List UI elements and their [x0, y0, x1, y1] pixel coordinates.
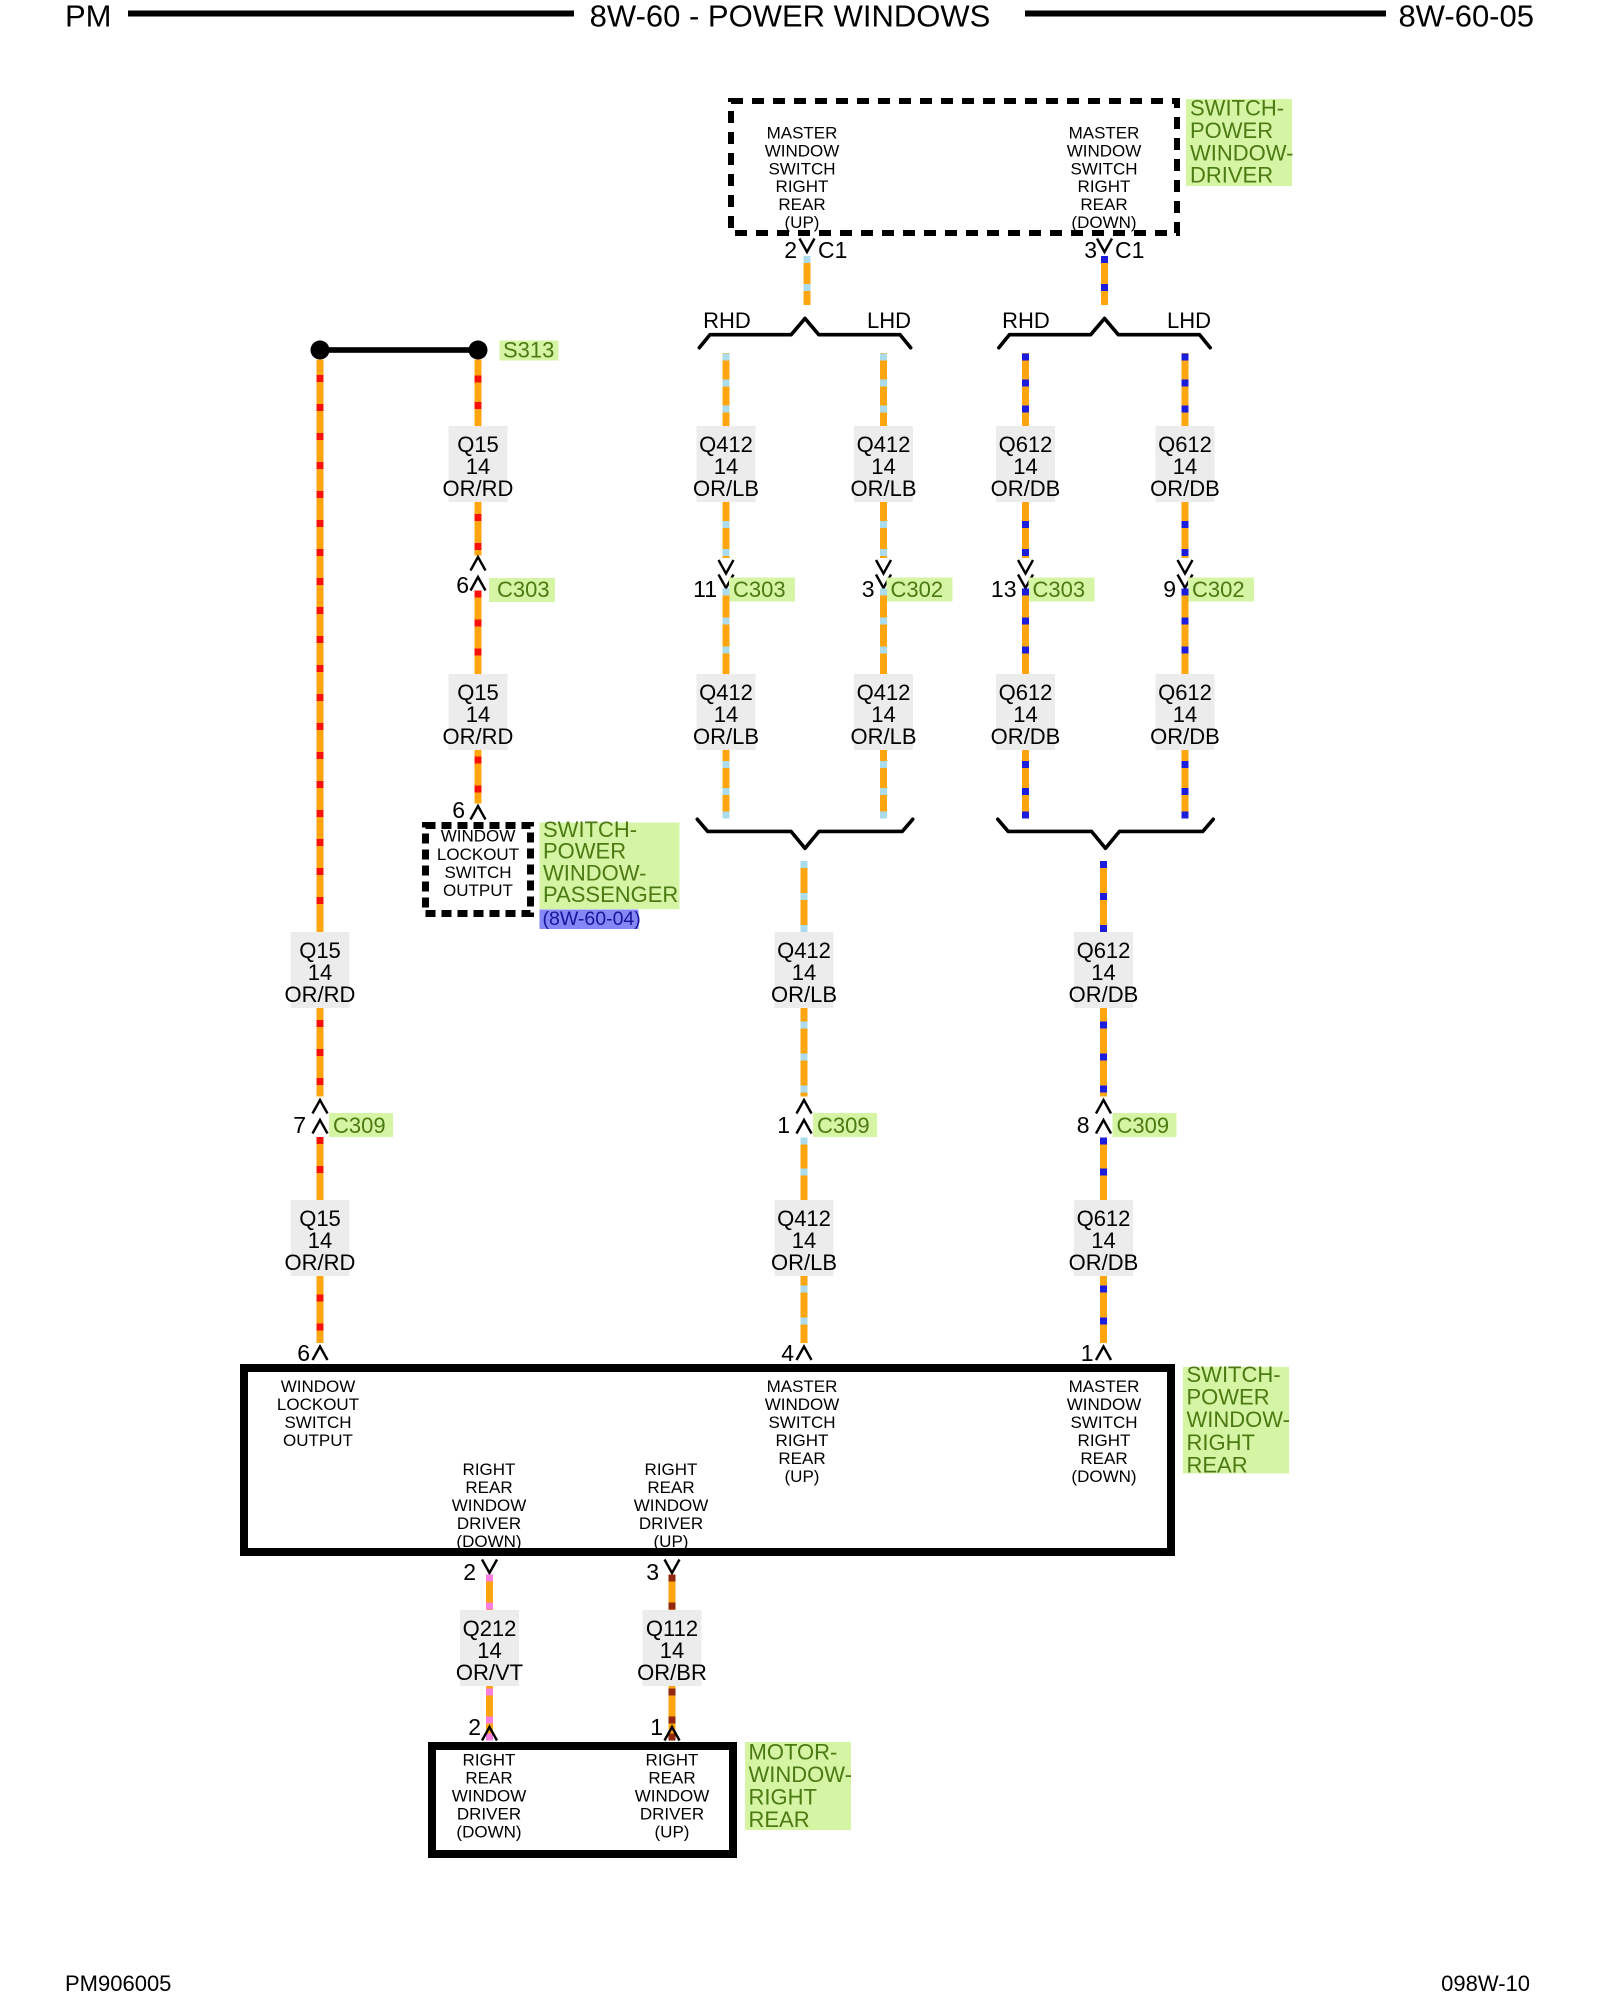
- label Q612 14 OR/DB (branch upper): [1150, 426, 1220, 502]
- label C309: [813, 1113, 877, 1138]
- label Q212 14 OR/VT: [456, 1610, 523, 1686]
- svg-text:OR/DB: OR/DB: [1150, 724, 1220, 749]
- label Q612 14 OR/DB (merged upper): [1069, 932, 1139, 1008]
- wire Q412 OR/LB merged segment 3: [801, 1138, 808, 1201]
- svg-text:REAR: REAR: [749, 1807, 810, 1832]
- svg-text:OR/DB: OR/DB: [1150, 476, 1220, 501]
- label Q15 14 OR/RD (left, upper): [285, 932, 356, 1008]
- svg-text:OR/RD: OR/RD: [443, 724, 514, 749]
- svg-text:WINDOW: WINDOW: [441, 827, 516, 846]
- svg-text:WINDOW-: WINDOW-: [1190, 140, 1293, 165]
- label C303: [1029, 577, 1095, 602]
- wire Q15 OR/RD right segment 1: [475, 360, 482, 427]
- wire Q112 OR/BR segment 1: [669, 1575, 676, 1611]
- svg-text:1: 1: [1081, 1340, 1094, 1366]
- svg-text:C1: C1: [818, 237, 847, 263]
- svg-text:PM906005: PM906005: [65, 1971, 171, 1996]
- RHD/LHD split bracket (Q412): [699, 318, 910, 347]
- svg-text:3: 3: [646, 1559, 659, 1585]
- label switch-power window-driver: [1186, 96, 1293, 188]
- wire Q412 OR/LB branch x=726 segment 2: [723, 502, 730, 558]
- label Q412 14 OR/LB (branch lower): [850, 674, 916, 750]
- svg-text:PM: PM: [65, 0, 112, 34]
- svg-text:DRIVER: DRIVER: [639, 1514, 703, 1533]
- svg-text:S313: S313: [503, 338, 554, 363]
- svg-text:REAR: REAR: [1187, 1452, 1248, 1477]
- label Q412 14 OR/LB (merged lower): [771, 1200, 837, 1276]
- svg-text:C302: C302: [1192, 577, 1245, 602]
- svg-text:REAR: REAR: [465, 1478, 512, 1497]
- merge bracket (Q412): [697, 819, 912, 848]
- label Q412 14 OR/LB (branch upper): [693, 426, 759, 502]
- svg-text:SWITCH: SWITCH: [444, 863, 511, 882]
- svg-text:(DOWN): (DOWN): [456, 1823, 521, 1842]
- svg-text:OR/RD: OR/RD: [443, 476, 514, 501]
- label Q612 14 OR/DB (merged lower): [1069, 1200, 1139, 1276]
- connector C302 pin 3 chevrons: [876, 560, 891, 588]
- pin 2 into motor: [468, 1714, 497, 1741]
- svg-text:(UP): (UP): [785, 213, 820, 232]
- svg-text:3: 3: [862, 576, 875, 602]
- pin 2 out of switch box: [463, 1559, 497, 1585]
- svg-text:OR/DB: OR/DB: [991, 476, 1061, 501]
- wire Q612 OR/DB branch x=1185 segment 1: [1182, 353, 1189, 426]
- svg-text:REAR: REAR: [778, 195, 825, 214]
- svg-text:RIGHT: RIGHT: [1078, 177, 1131, 196]
- wire Q412 OR/LB merged segment 1: [801, 861, 808, 932]
- svg-text:(8W-60-04): (8W-60-04): [543, 908, 641, 930]
- svg-text:MASTER: MASTER: [1069, 124, 1140, 143]
- svg-text:DRIVER: DRIVER: [1190, 163, 1273, 188]
- wire Q412 OR/LB branch x=726 segment 1: [723, 353, 730, 426]
- label C309 (left): [329, 1113, 393, 1138]
- svg-text:OUTPUT: OUTPUT: [283, 1431, 353, 1450]
- label C302: [1188, 577, 1254, 602]
- wire Q15 OR/RD right segment 4: [475, 750, 482, 804]
- svg-text:REAR: REAR: [1080, 1449, 1127, 1468]
- svg-text:WINDOW: WINDOW: [452, 1787, 527, 1806]
- svg-text:WINDOW: WINDOW: [635, 1787, 710, 1806]
- wire Q412 OR/LB branch x=883.5 segment 2: [880, 502, 887, 558]
- label Q612 14 OR/DB (branch lower): [991, 674, 1061, 750]
- connector C303 pin 13 chevrons: [1018, 560, 1033, 588]
- svg-text:OR/RD: OR/RD: [285, 1250, 356, 1275]
- svg-text:(UP): (UP): [785, 1467, 820, 1486]
- svg-text:8W-60 - POWER WINDOWS: 8W-60 - POWER WINDOWS: [590, 0, 991, 34]
- svg-text:C302: C302: [891, 577, 944, 602]
- svg-text:C1: C1: [1115, 237, 1144, 263]
- svg-text:RHD: RHD: [1002, 308, 1050, 333]
- wire Q412 OR/LB merged segment 2: [801, 1008, 808, 1097]
- header rule right: [1025, 11, 1386, 17]
- component window lockout switch output (dashed box): [426, 826, 531, 914]
- svg-text:RIGHT: RIGHT: [749, 1785, 817, 1810]
- svg-text:MASTER: MASTER: [1069, 1377, 1140, 1396]
- label C303: [729, 577, 795, 602]
- label C309: [1113, 1113, 1177, 1138]
- wire Q412 OR/LB branch x=883.5 segment 3: [880, 589, 887, 675]
- label switch-power window-right rear: [1183, 1362, 1290, 1477]
- svg-text:6: 6: [456, 572, 469, 598]
- svg-text:C309: C309: [817, 1113, 870, 1138]
- wire Q212 OR/VT segment 2: [486, 1686, 493, 1741]
- svg-text:DRIVER: DRIVER: [457, 1514, 521, 1533]
- svg-text:OR/VT: OR/VT: [456, 1660, 523, 1685]
- label Q112 14 OR/BR: [637, 1610, 707, 1686]
- wire Q612 OR/DB branch x=1185 segment 2: [1182, 502, 1189, 558]
- label Q612 14 OR/DB (branch lower): [1150, 674, 1220, 750]
- svg-text:(DOWN): (DOWN): [1071, 1467, 1136, 1486]
- svg-text:OR/RD: OR/RD: [285, 982, 356, 1007]
- wire Q612 OR/DB branch x=1025.5 segment 3: [1022, 589, 1029, 675]
- component motor-window-right rear (box): [432, 1746, 733, 1854]
- svg-text:2: 2: [468, 1714, 481, 1740]
- svg-text:OR/LB: OR/LB: [771, 1250, 837, 1275]
- pin 6 into window lockout switch: [471, 806, 486, 820]
- svg-text:098W-10: 098W-10: [1441, 1971, 1530, 1996]
- connector C302 pin 9 chevrons: [1178, 560, 1193, 588]
- svg-text:OR/DB: OR/DB: [1069, 1250, 1139, 1275]
- svg-text:WINDOW: WINDOW: [634, 1496, 709, 1515]
- svg-text:REAR: REAR: [648, 1769, 695, 1788]
- svg-text:11: 11: [693, 576, 717, 602]
- svg-text:C303: C303: [497, 577, 550, 602]
- svg-text:C303: C303: [733, 577, 786, 602]
- svg-text:POWER: POWER: [1187, 1385, 1270, 1410]
- wire Q612 OR/DB branch x=1025.5 segment 4: [1022, 750, 1029, 819]
- wire Q612 OR/DB branch x=1025.5 segment 1: [1022, 353, 1029, 426]
- svg-text:6: 6: [452, 797, 465, 823]
- svg-text:SWITCH-: SWITCH-: [1187, 1362, 1281, 1387]
- pin 4 into switch box: [797, 1347, 812, 1361]
- svg-text:(UP): (UP): [654, 1532, 689, 1551]
- svg-text:REAR: REAR: [778, 1449, 825, 1468]
- svg-text:RIGHT: RIGHT: [463, 1460, 516, 1479]
- label Q412 14 OR/LB (merged upper): [771, 932, 837, 1008]
- svg-text:1: 1: [777, 1112, 790, 1138]
- svg-text:SWITCH: SWITCH: [1070, 159, 1137, 178]
- svg-text:LOCKOUT: LOCKOUT: [437, 845, 519, 864]
- svg-text:WINDOW: WINDOW: [1067, 1395, 1142, 1414]
- svg-text:LHD: LHD: [867, 308, 911, 333]
- svg-text:WINDOW: WINDOW: [452, 1496, 527, 1515]
- svg-text:OR/LB: OR/LB: [693, 724, 759, 749]
- wire Q412 OR/LB from pin 2: [804, 256, 811, 305]
- svg-text:SWITCH-: SWITCH-: [1190, 96, 1284, 121]
- splice S313 bar: [311, 341, 488, 360]
- svg-text:RIGHT: RIGHT: [1078, 1431, 1131, 1450]
- wire Q15 OR/RD left segment 4: [317, 1276, 324, 1343]
- wire Q15 OR/RD right segment 3: [475, 591, 482, 675]
- pin 6 into switch box: [313, 1347, 328, 1361]
- svg-text:WINDOW: WINDOW: [281, 1377, 356, 1396]
- wire Q612 OR/DB branch x=1185 segment 4: [1182, 750, 1189, 819]
- svg-text:POWER: POWER: [1190, 118, 1273, 143]
- wire Q612 OR/DB from pin 3: [1101, 256, 1108, 305]
- svg-text:WINDOW: WINDOW: [765, 141, 840, 160]
- wire Q412 OR/LB merged segment 4: [801, 1276, 808, 1343]
- wire Q15 OR/RD left segment 3: [317, 1137, 324, 1200]
- wire Q15 OR/RD left segment 2: [317, 1008, 324, 1097]
- label motor-window-right rear: [745, 1740, 852, 1833]
- svg-text:2: 2: [463, 1559, 476, 1585]
- label S313: [500, 338, 559, 363]
- label Q412 14 OR/LB (branch lower): [693, 674, 759, 750]
- svg-text:LHD: LHD: [1167, 308, 1211, 333]
- svg-text:RIGHT: RIGHT: [776, 177, 829, 196]
- svg-text:2: 2: [784, 237, 797, 263]
- wire Q212 OR/VT segment 1: [486, 1575, 493, 1611]
- svg-text:OR/DB: OR/DB: [1069, 982, 1139, 1007]
- wire Q412 OR/LB branch x=883.5 segment 4: [880, 750, 887, 819]
- wire Q15 OR/RD right segment 2: [475, 502, 482, 556]
- svg-text:REAR: REAR: [465, 1769, 512, 1788]
- wire Q112 OR/BR segment 2: [669, 1686, 676, 1741]
- svg-text:OR/LB: OR/LB: [850, 724, 916, 749]
- wire Q612 OR/DB merged segment 1: [1100, 861, 1107, 932]
- label C303 (at lockout wire): [489, 577, 555, 602]
- svg-text:1: 1: [650, 1714, 663, 1740]
- wire Q612 OR/DB merged segment 2: [1100, 1008, 1107, 1097]
- pin 1 into motor: [650, 1714, 679, 1741]
- svg-text:8: 8: [1077, 1112, 1090, 1138]
- wire Q612 OR/DB branch x=1185 segment 3: [1182, 589, 1189, 675]
- wire Q15 OR/RD left segment 1: [317, 360, 324, 933]
- label Q15 14 OR/RD (upper): [443, 426, 514, 502]
- label Q15 14 OR/RD (left, lower): [285, 1200, 356, 1276]
- RHD/LHD split bracket (Q612): [999, 318, 1210, 347]
- svg-text:OR/LB: OR/LB: [771, 982, 837, 1007]
- svg-text:7: 7: [293, 1112, 306, 1138]
- svg-text:C303: C303: [1033, 577, 1086, 602]
- svg-text:(UP): (UP): [655, 1823, 690, 1842]
- svg-text:(DOWN): (DOWN): [456, 1532, 521, 1551]
- svg-text:OR/BR: OR/BR: [637, 1660, 707, 1685]
- wire Q612 OR/DB merged segment 4: [1100, 1276, 1107, 1343]
- svg-text:OR/LB: OR/LB: [693, 476, 759, 501]
- svg-text:REAR: REAR: [1080, 195, 1127, 214]
- connector C309 pin 7 chevrons: [313, 1100, 328, 1134]
- svg-text:WINDOW-: WINDOW-: [749, 1762, 852, 1787]
- svg-text:RIGHT: RIGHT: [1187, 1430, 1255, 1455]
- svg-text:C309: C309: [333, 1113, 386, 1138]
- component switch-power window-driver (dashed box): [731, 101, 1177, 233]
- component switch-power window-right rear (box): [244, 1368, 1171, 1552]
- label reference 8W-60-04: [540, 908, 641, 930]
- svg-text:13: 13: [991, 576, 1017, 602]
- svg-text:RIGHT: RIGHT: [463, 1751, 516, 1770]
- connector C303 pin 11 chevrons: [719, 560, 734, 588]
- svg-text:6: 6: [297, 1340, 310, 1366]
- svg-text:4: 4: [781, 1340, 794, 1366]
- svg-text:REAR: REAR: [647, 1478, 694, 1497]
- merge bracket (Q612): [998, 819, 1213, 848]
- svg-text:LOCKOUT: LOCKOUT: [277, 1395, 359, 1414]
- connector C309 pin 1 chevrons: [797, 1100, 812, 1134]
- svg-text:MASTER: MASTER: [767, 124, 838, 143]
- svg-text:RHD: RHD: [703, 308, 751, 333]
- svg-text:RIGHT: RIGHT: [645, 1460, 698, 1479]
- label C302: [887, 577, 953, 602]
- svg-text:WINDOW: WINDOW: [765, 1395, 840, 1414]
- pin 2 C1: [784, 237, 847, 263]
- pin 3 out of switch box: [646, 1559, 679, 1585]
- svg-text:PASSENGER: PASSENGER: [543, 882, 678, 907]
- svg-text:(DOWN): (DOWN): [1071, 213, 1136, 232]
- label Q15 14 OR/RD (lower): [443, 674, 514, 750]
- svg-text:RIGHT: RIGHT: [646, 1751, 699, 1770]
- svg-text:WINDOW-: WINDOW-: [1187, 1407, 1290, 1432]
- svg-text:8W-60-05: 8W-60-05: [1398, 0, 1534, 34]
- wire Q412 OR/LB branch x=883.5 segment 1: [880, 353, 887, 426]
- connector C303 pin 6 chevrons: [471, 557, 486, 591]
- pin 3 C1: [1084, 237, 1144, 263]
- svg-text:C309: C309: [1117, 1113, 1170, 1138]
- connector C309 pin 8 chevrons: [1096, 1100, 1111, 1134]
- wire Q412 OR/LB branch x=726 segment 4: [723, 750, 730, 819]
- svg-text:WINDOW: WINDOW: [1067, 141, 1142, 160]
- svg-text:OR/LB: OR/LB: [850, 476, 916, 501]
- svg-text:MASTER: MASTER: [767, 1377, 838, 1396]
- svg-text:SWITCH: SWITCH: [284, 1413, 351, 1432]
- pin 1 into switch box: [1096, 1347, 1111, 1361]
- label switch-power window-passenger: [540, 817, 680, 909]
- svg-text:OR/DB: OR/DB: [991, 724, 1061, 749]
- label Q612 14 OR/DB (branch upper): [991, 426, 1061, 502]
- svg-text:SWITCH: SWITCH: [1070, 1413, 1137, 1432]
- svg-text:OUTPUT: OUTPUT: [443, 881, 513, 900]
- svg-text:DRIVER: DRIVER: [640, 1805, 704, 1824]
- wire Q612 OR/DB branch x=1025.5 segment 2: [1022, 502, 1029, 558]
- wire Q612 OR/DB merged segment 3: [1100, 1138, 1107, 1201]
- header rule left: [128, 11, 574, 17]
- label Q412 14 OR/LB (branch upper): [850, 426, 916, 502]
- svg-text:SWITCH: SWITCH: [768, 159, 835, 178]
- svg-text:3: 3: [1084, 237, 1097, 263]
- svg-text:SWITCH: SWITCH: [768, 1413, 835, 1432]
- svg-text:MOTOR-: MOTOR-: [749, 1740, 838, 1765]
- svg-text:9: 9: [1163, 576, 1176, 602]
- svg-text:DRIVER: DRIVER: [457, 1805, 521, 1824]
- wire Q412 OR/LB branch x=726 segment 3: [723, 589, 730, 675]
- svg-text:RIGHT: RIGHT: [776, 1431, 829, 1450]
